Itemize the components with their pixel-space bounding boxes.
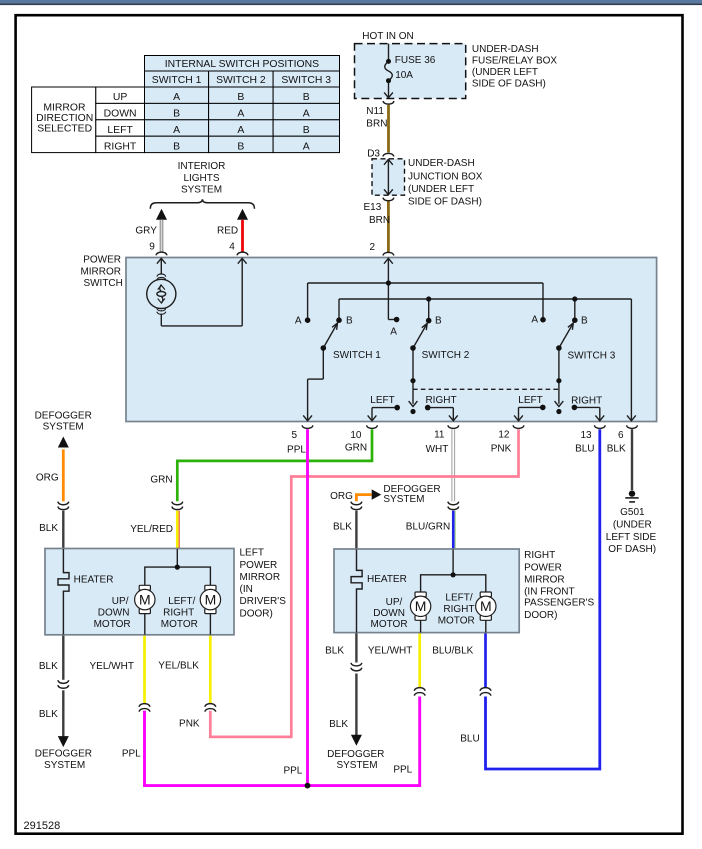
svg-text:UP/: UP/ (386, 597, 403, 608)
svg-text:DEFOGGER: DEFOGGER (327, 749, 384, 760)
svg-text:ORG: ORG (330, 491, 353, 502)
svg-text:B: B (303, 125, 310, 136)
svg-text:MOTOR: MOTOR (371, 619, 408, 630)
svg-text:N11: N11 (366, 106, 384, 117)
svg-text:UNDER-DASH: UNDER-DASH (408, 158, 475, 169)
svg-text:DEFOGGER: DEFOGGER (35, 410, 92, 421)
svg-text:B: B (173, 141, 180, 152)
svg-text:OF DASH): OF DASH) (608, 544, 656, 555)
svg-text:A: A (303, 109, 310, 120)
svg-text:M: M (480, 598, 492, 614)
svg-text:B: B (346, 315, 353, 326)
svg-text:PASSENGER'S: PASSENGER'S (524, 598, 594, 609)
svg-text:D3: D3 (367, 148, 380, 159)
svg-text:SWITCH 2: SWITCH 2 (216, 75, 266, 86)
svg-text:POWER: POWER (83, 254, 121, 265)
svg-text:JUNCTION BOX: JUNCTION BOX (408, 171, 483, 182)
svg-text:DIRECTION: DIRECTION (36, 113, 93, 124)
svg-text:UP: UP (113, 92, 128, 103)
svg-text:A: A (173, 92, 180, 103)
svg-text:HEATER: HEATER (74, 575, 114, 586)
svg-text:LEFT: LEFT (370, 395, 394, 406)
svg-text:DOOR): DOOR) (240, 608, 273, 619)
svg-text:RIGHT: RIGHT (443, 604, 474, 615)
svg-text:BLU: BLU (460, 734, 479, 745)
svg-text:PNK: PNK (491, 444, 512, 455)
svg-text:SWITCH 2: SWITCH 2 (422, 350, 470, 361)
svg-text:INTERIOR: INTERIOR (178, 161, 226, 172)
svg-text:LEFT/: LEFT/ (445, 592, 472, 603)
svg-text:(UNDER LEFT: (UNDER LEFT (472, 67, 538, 78)
svg-text:RIGHT: RIGHT (163, 608, 194, 619)
svg-text:A: A (295, 315, 302, 326)
svg-text:HOT IN ON: HOT IN ON (362, 31, 413, 42)
svg-text:LEFT: LEFT (518, 395, 542, 406)
svg-text:2: 2 (369, 242, 375, 253)
svg-text:DOWN: DOWN (373, 608, 405, 619)
svg-text:MIRROR: MIRROR (43, 102, 86, 113)
svg-text:YEL/BLK: YEL/BLK (158, 661, 199, 672)
svg-text:B: B (237, 141, 244, 152)
svg-text:B: B (581, 315, 588, 326)
svg-text:A: A (303, 141, 310, 152)
svg-text:LEFT: LEFT (107, 125, 133, 136)
svg-text:SELECTED: SELECTED (37, 124, 92, 135)
svg-text:MOTOR: MOTOR (438, 616, 475, 627)
svg-text:BLK: BLK (333, 521, 352, 532)
svg-text:PNK: PNK (179, 719, 200, 730)
svg-text:10A: 10A (395, 70, 413, 81)
svg-text:12: 12 (498, 430, 510, 441)
svg-text:A: A (237, 109, 244, 120)
svg-text:DRIVER'S: DRIVER'S (240, 596, 287, 607)
svg-text:B: B (237, 92, 244, 103)
svg-text:LEFT SIDE: LEFT SIDE (606, 532, 657, 543)
svg-text:SWITCH 1: SWITCH 1 (333, 350, 381, 361)
svg-text:4: 4 (229, 241, 235, 252)
svg-text:HEATER: HEATER (367, 574, 407, 585)
svg-text:FUSE 36: FUSE 36 (395, 55, 436, 66)
svg-text:BLK: BLK (39, 709, 58, 720)
svg-text:LEFT/: LEFT/ (168, 596, 195, 607)
svg-text:(UNDER LEFT: (UNDER LEFT (408, 184, 474, 195)
svg-text:M: M (415, 598, 427, 614)
svg-text:GRY: GRY (135, 225, 157, 236)
svg-text:(IN: (IN (240, 584, 253, 595)
svg-text:291528: 291528 (24, 820, 61, 832)
svg-text:MIRROR: MIRROR (80, 266, 121, 277)
svg-text:BLK: BLK (39, 523, 58, 534)
svg-text:BLU/GRN: BLU/GRN (406, 521, 450, 532)
svg-text:LEFT: LEFT (240, 548, 264, 559)
svg-text:SYSTEM: SYSTEM (383, 494, 424, 505)
svg-text:DOOR): DOOR) (524, 610, 557, 621)
svg-text:RIGHT: RIGHT (425, 395, 456, 406)
svg-text:MOTOR: MOTOR (161, 619, 198, 630)
svg-text:POWER: POWER (240, 560, 278, 571)
svg-text:MIRROR: MIRROR (524, 574, 565, 585)
svg-text:5: 5 (291, 430, 297, 441)
svg-text:MIRROR: MIRROR (240, 572, 281, 583)
svg-text:UP/: UP/ (112, 596, 129, 607)
svg-text:SWITCH 1: SWITCH 1 (152, 75, 202, 86)
svg-text:SIDE OF DASH): SIDE OF DASH) (408, 196, 482, 207)
svg-text:ORG: ORG (36, 473, 59, 484)
svg-text:BLK: BLK (325, 646, 344, 657)
svg-text:BRN: BRN (369, 215, 390, 226)
svg-text:SYSTEM: SYSTEM (181, 185, 222, 196)
svg-text:A: A (531, 314, 538, 325)
svg-text:LIGHTS: LIGHTS (183, 173, 219, 184)
svg-text:(IN FRONT: (IN FRONT (524, 586, 575, 597)
svg-text:MOTOR: MOTOR (94, 619, 131, 630)
svg-text:INTERNAL SWITCH POSITIONS: INTERNAL SWITCH POSITIONS (165, 59, 319, 70)
svg-text:BLK: BLK (607, 443, 626, 454)
svg-text:BRN: BRN (366, 118, 387, 129)
svg-text:SWITCH 3: SWITCH 3 (568, 351, 616, 362)
svg-text:SYSTEM: SYSTEM (44, 760, 85, 771)
svg-text:DOWN: DOWN (98, 608, 130, 619)
svg-text:SWITCH: SWITCH (83, 278, 122, 289)
svg-text:G501: G501 (620, 507, 645, 518)
svg-text:11: 11 (434, 430, 445, 441)
svg-text:PPL: PPL (122, 749, 141, 760)
svg-text:9: 9 (149, 241, 155, 252)
svg-text:A: A (237, 125, 244, 136)
svg-text:10: 10 (350, 430, 362, 441)
svg-text:13: 13 (580, 430, 592, 441)
svg-text:YEL/WHT: YEL/WHT (368, 646, 412, 657)
svg-text:DOWN: DOWN (104, 109, 137, 120)
svg-text:RIGHT: RIGHT (524, 550, 555, 561)
svg-text:RIGHT: RIGHT (571, 396, 602, 407)
svg-text:PPL: PPL (393, 765, 412, 776)
svg-text:B: B (303, 92, 310, 103)
svg-text:SYSTEM: SYSTEM (336, 760, 377, 771)
svg-text:GRN: GRN (345, 443, 367, 454)
svg-text:SWITCH 3: SWITCH 3 (281, 75, 331, 86)
svg-text:B: B (435, 315, 442, 326)
svg-text:RED: RED (217, 225, 238, 236)
svg-text:PPL: PPL (283, 766, 302, 777)
svg-text:BLK: BLK (39, 661, 58, 672)
svg-text:6: 6 (618, 430, 624, 441)
svg-text:M: M (205, 592, 217, 608)
svg-text:YEL/WHT: YEL/WHT (90, 661, 134, 672)
svg-text:A: A (390, 326, 397, 337)
svg-text:POWER: POWER (524, 563, 562, 574)
svg-text:SYSTEM: SYSTEM (43, 421, 84, 432)
svg-text:B: B (173, 109, 180, 120)
svg-text:E13: E13 (364, 202, 382, 213)
svg-text:UNDER-DASH: UNDER-DASH (472, 44, 539, 55)
svg-text:BLU: BLU (575, 443, 594, 454)
svg-text:M: M (139, 592, 151, 608)
svg-text:GRN: GRN (150, 475, 172, 486)
svg-text:PPL: PPL (287, 444, 306, 455)
svg-text:RIGHT: RIGHT (104, 141, 137, 152)
svg-text:BLK: BLK (329, 719, 348, 730)
svg-text:BLU/BLK: BLU/BLK (432, 646, 473, 657)
svg-text:WHT: WHT (426, 444, 449, 455)
svg-text:SIDE OF DASH): SIDE OF DASH) (472, 79, 546, 90)
svg-text:A: A (173, 125, 180, 136)
svg-text:DEFOGGER: DEFOGGER (35, 748, 92, 759)
svg-text:FUSE/RELAY BOX: FUSE/RELAY BOX (472, 56, 558, 67)
svg-text:(UNDER: (UNDER (613, 519, 652, 530)
svg-text:YEL/RED: YEL/RED (130, 524, 173, 535)
